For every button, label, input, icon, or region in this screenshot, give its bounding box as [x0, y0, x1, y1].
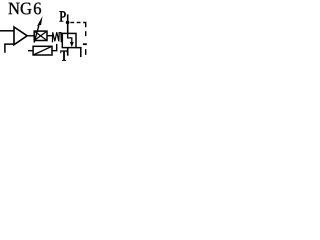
port line T: [67, 48, 69, 56]
op-amp amplifier triangle: [14, 27, 27, 45]
wire input top: [0, 30, 14, 32]
valve internal flow path with arrow: [68, 34, 74, 48]
port line P: [67, 14, 69, 33]
dashed enclosure top edge: [70, 23, 85, 28]
junction node on P line: [66, 21, 70, 25]
wire transducer input stub: [28, 50, 33, 52]
dashed enclosure right edge: [85, 31, 87, 55]
label T: [61, 51, 68, 61]
wire amplifier to solenoid: [27, 35, 34, 37]
valve body square: [62, 33, 76, 47]
transducer box with diagonal: [33, 46, 52, 55]
wire transducer to valve junction: [52, 44, 57, 51]
wire input bottom (step): [5, 44, 14, 53]
adjustability arrow through solenoid: [34, 16, 42, 43]
spring: [52, 32, 61, 42]
dashed pilot line: [83, 43, 87, 45]
drain line L-shape: [76, 48, 81, 58]
wire solenoid to spring: [47, 35, 53, 37]
label NG6: [8, 3, 41, 15]
solenoid box with X: [34, 31, 47, 40]
label P: [60, 11, 66, 21]
